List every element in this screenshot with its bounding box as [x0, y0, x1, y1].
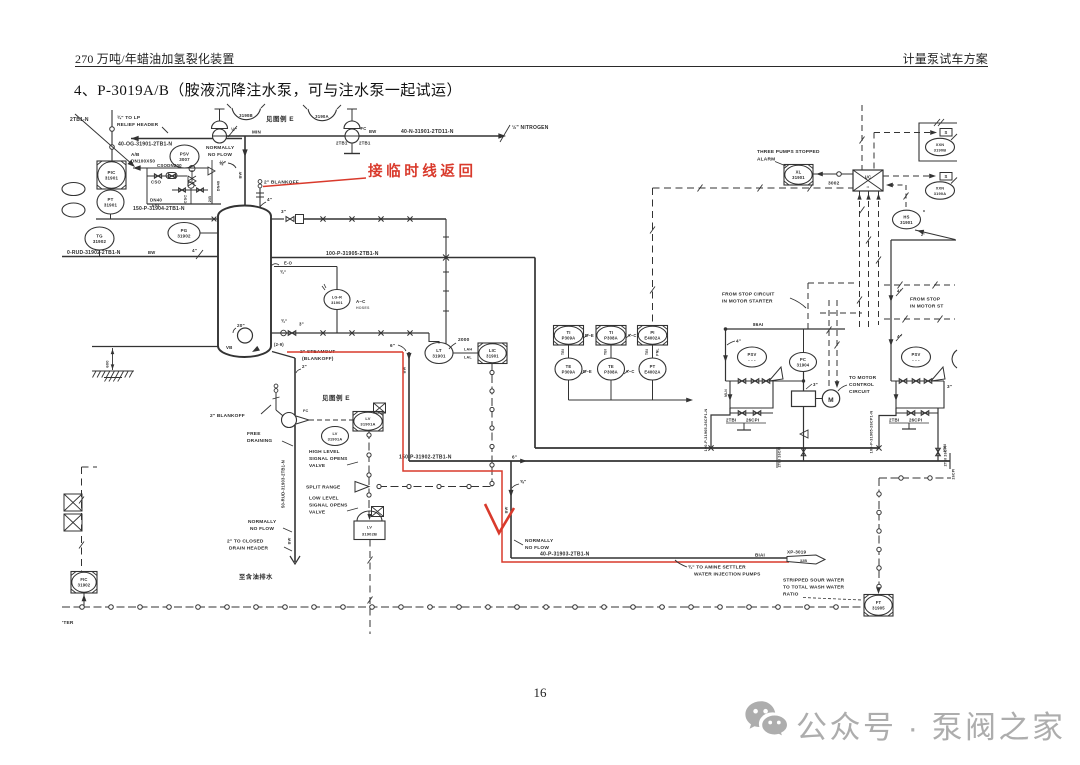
svg-text:XL: XL [796, 170, 802, 175]
svg-text:40-P-31903-2TB1-N: 40-P-31903-2TB1-N [540, 552, 590, 558]
svg-text:P308A: P308A [604, 336, 618, 341]
svg-text:6": 6" [512, 455, 517, 460]
svg-text:31901: 31901 [331, 300, 343, 305]
svg-text:600: 600 [105, 360, 110, 368]
pipe pump A suction drop [725, 329, 727, 381]
switch box S lower [940, 173, 952, 181]
positioner box LV31902B [372, 507, 384, 517]
svg-text:P309A: P309A [562, 370, 576, 375]
svg-text:31901A: 31901A [360, 422, 375, 427]
controller PIC 31901 [97, 161, 126, 189]
gauge TG 31902 [85, 227, 114, 250]
transmitter LT 31901 [425, 343, 453, 364]
svg-text:31902: 31902 [78, 583, 91, 588]
svg-text:31902: 31902 [93, 239, 107, 244]
valve manifold CSO row [154, 174, 161, 178]
pipe pump A discharge [803, 407, 805, 462]
svg-text:NO FLOW: NO FLOW [525, 545, 549, 551]
valve LV 31901A square [353, 412, 383, 432]
pipe riser to discharge header [408, 352, 410, 461]
wire TI drop [610, 345, 612, 358]
svg-text:⅝": ⅝" [520, 479, 526, 484]
svg-text:TE: TE [566, 364, 572, 369]
valve symbol upper left edge [64, 494, 82, 511]
svg-text:见图例 E: 见图例 E [322, 393, 350, 402]
svg-text:IN MOTOR STARTER: IN MOTOR STARTER [722, 299, 773, 305]
svg-text:PI: PI [650, 330, 654, 335]
pump B recirculation box [896, 381, 944, 408]
svg-text:THREE PUMPS STOPPED: THREE PUMPS STOPPED [757, 149, 820, 155]
svg-text:LAL: LAL [464, 356, 472, 360]
relief regulator left [219, 109, 221, 121]
svg-text:31902: 31902 [177, 234, 191, 239]
svg-text:UC: UC [865, 175, 871, 180]
pipe 40-P-31903 line [511, 557, 787, 559]
svg-text:50-RUD-31903-2TB1-N: 50-RUD-31903-2TB1-N [281, 460, 286, 508]
svg-text:2TB1: 2TB1 [336, 141, 348, 146]
wire manifold right drop [211, 171, 213, 204]
svg-text:CONTROL: CONTROL [849, 382, 874, 388]
spec tee pump B [908, 423, 910, 429]
valve row CSC [179, 188, 186, 192]
svg-text:PNL: PNL [656, 348, 660, 355]
svg-text:2TBI: 2TBI [943, 444, 947, 453]
pipe steamout stub [272, 352, 295, 359]
svg-text:E-O: E-O [284, 261, 293, 266]
svg-text:MLN: MLN [724, 389, 728, 397]
pipe relief header run [227, 135, 345, 137]
spec tee pump A [743, 423, 745, 430]
wire PC stem [803, 329, 805, 353]
svg-text:40-N-31901-2TD11-N: 40-N-31901-2TD11-N [401, 129, 454, 135]
pipe pump A suction from header [711, 408, 730, 448]
svg-text:6": 6" [390, 343, 395, 348]
wire TG stem [99, 250, 101, 257]
blankoff stub [275, 393, 277, 410]
svg-text:31902B: 31902B [362, 532, 377, 537]
pipe discharge header 150-P-31902 [409, 460, 950, 462]
wire pump run signals to UC [859, 191, 861, 330]
wire dashed above UC right [873, 133, 875, 171]
svg-text:HS: HS [903, 215, 909, 220]
svg-text:¾" TO AMINE SETTLER: ¾" TO AMINE SETTLER [688, 564, 746, 571]
controller PC 31904 [790, 353, 817, 372]
svg-text:31901A: 31901A [328, 437, 343, 442]
valve row pump A [726, 380, 803, 382]
pump A body [792, 391, 816, 407]
wire LV signal chain [368, 431, 370, 515]
label half inch min [228, 126, 237, 137]
red reroute path [403, 352, 789, 562]
svg-text:4": 4" [192, 248, 197, 253]
wire UC to S lower [883, 175, 933, 177]
wire PG to vessel [200, 232, 218, 234]
svg-text:3190B: 3190B [934, 148, 946, 153]
svg-text:TI: TI [609, 330, 613, 335]
relief PSV pump A [738, 347, 767, 367]
svg-text:3190B: 3190B [239, 113, 253, 118]
svg-text:150-P-31904-2TB1-N: 150-P-31904-2TB1-N [133, 206, 185, 212]
selector HS 31901 [893, 210, 921, 229]
wire PT stem [652, 380, 654, 400]
pipe drop 40-P [510, 461, 512, 558]
svg-text:2TBI: 2TBI [889, 418, 899, 423]
svg-text:31905: 31905 [872, 606, 885, 611]
svg-text:¾": ¾" [281, 319, 287, 324]
pipe 100-P-31905 line [271, 257, 535, 259]
indicator PI E4002A [638, 326, 668, 346]
svg-text:NO FLOW: NO FLOW [250, 526, 274, 532]
wire LT to LIC [453, 352, 478, 354]
svg-text:LV: LV [365, 416, 370, 421]
svg-text:TG: TG [96, 234, 103, 239]
svg-text:E4002A: E4002A [644, 336, 660, 341]
switch box S upper [940, 129, 952, 137]
svg-text:¾": ¾" [280, 270, 286, 275]
red temp line [263, 178, 366, 187]
wire PT to line [110, 214, 112, 219]
vessel nozzle 3in [271, 218, 284, 220]
gauge PG 31902 [168, 223, 200, 244]
pipe suction header [534, 258, 536, 449]
wire FIC from link line [83, 593, 85, 607]
svg-text:TBI: TBI [561, 349, 565, 355]
ground hatch [92, 370, 134, 372]
relief valve PSV 3007 [170, 145, 199, 168]
element TE P309A [555, 358, 582, 380]
wire PIC outlet [133, 165, 141, 170]
svg-text:31901: 31901 [104, 203, 118, 208]
svg-text:PSV: PSV [912, 352, 921, 357]
svg-text:FIC: FIC [80, 577, 87, 582]
wire standpipe to LT [429, 333, 439, 344]
pipe bottom drain [294, 358, 296, 545]
svg-text:FROM STOP CIRCUIT: FROM STOP CIRCUIT [722, 292, 775, 298]
svg-text:至含油排水: 至含油排水 [239, 573, 273, 581]
dash break slashes [698, 185, 703, 192]
svg-text:FC: FC [361, 126, 367, 131]
svg-text:- - -: - - - [748, 358, 756, 363]
svg-text:接临时线返回: 接临时线返回 [368, 162, 477, 180]
svg-text:31901: 31901 [486, 354, 499, 359]
svg-text:20": 20" [237, 323, 245, 328]
svg-text:LIC: LIC [489, 348, 496, 353]
level glass LG 31901 [324, 290, 350, 310]
svg-text:31904: 31904 [797, 363, 810, 368]
valve pair pump A bottom [730, 412, 773, 414]
drain outlet arrow [290, 556, 300, 564]
svg-text:CIRCUIT: CIRCUIT [849, 389, 870, 395]
wire HS lower diagonal [915, 230, 955, 240]
label 2TBI rotated A [776, 447, 778, 468]
wire TI drop [568, 345, 570, 358]
svg-text:A~C: A~C [356, 299, 366, 304]
svg-text:2": 2" [302, 364, 307, 369]
wire TE stem [568, 380, 570, 400]
svg-text:¾" TO LP: ¾" TO LP [117, 114, 141, 121]
svg-text:BW: BW [288, 537, 292, 544]
svg-text:TI: TI [566, 330, 570, 335]
red steamout line [287, 351, 403, 353]
svg-text:HIGH LEVEL: HIGH LEVEL [309, 449, 340, 455]
psv arc 3190A [308, 109, 337, 121]
svg-text:26CPI: 26CPI [909, 418, 922, 423]
wire dashed above UC left [861, 105, 863, 170]
svg-text:CSC: CSC [184, 195, 188, 204]
indicator TI P309A [554, 326, 584, 346]
svg-text:S: S [945, 130, 948, 135]
wire diagonal signal [75, 114, 133, 165]
pilot LV 31901A [322, 427, 349, 446]
svg-text:4": 4" [736, 339, 741, 344]
vessel V-3190 shell [218, 206, 271, 358]
wire dashed right mesh [884, 284, 955, 286]
svg-text:SIGNAL OPENS: SIGNAL OPENS [309, 503, 348, 509]
pipe left inlet header [96, 218, 218, 220]
relief PSV pump B [902, 347, 931, 367]
svg-text:FT: FT [876, 600, 882, 605]
pipe nitrogen line [359, 135, 503, 137]
svg-text:PT: PT [107, 197, 113, 202]
svg-text:NORMALLY: NORMALLY [206, 145, 235, 151]
left cut ellipse lower [62, 203, 85, 217]
svg-text:*: * [923, 210, 925, 216]
wire UC to XL [813, 173, 853, 175]
wire split range link [379, 486, 492, 488]
svg-text:2TBI: 2TBI [726, 418, 736, 423]
svg-text:LG-R: LG-R [332, 295, 342, 300]
svg-text:NO FLOW: NO FLOW [208, 152, 232, 158]
svg-text:½": ½" [220, 159, 226, 165]
svg-text:DRAIN HEADER: DRAIN HEADER [229, 546, 269, 552]
vessel top nozzle 2 [259, 188, 261, 207]
svg-text:3": 3" [813, 382, 818, 387]
wire equalizing leg [445, 219, 447, 344]
pump A recirculation box [730, 381, 773, 408]
svg-text:STRIPPED SOUR WATER: STRIPPED SOUR WATER [783, 578, 845, 584]
wire PI drop [652, 345, 654, 358]
element PT E4002A [639, 358, 666, 380]
svg-text:SIGNAL OPENS: SIGNAL OPENS [309, 456, 348, 462]
svg-text:PSV: PSV [748, 352, 757, 357]
valve right funnel [208, 167, 215, 175]
svg-text:3190A: 3190A [315, 114, 329, 119]
pipe vessel relief riser [244, 136, 246, 206]
wire dashed drop to PI [652, 188, 654, 326]
svg-text:HOSES: HOSES [356, 306, 370, 310]
svg-text:DN100X50: DN100X50 [131, 159, 155, 164]
svg-text:TBI: TBI [604, 349, 608, 355]
controller LIC 31901 [478, 343, 507, 364]
pipe standpipe line [271, 332, 429, 334]
svg-text:BW: BW [505, 506, 509, 513]
svg-text:BIAI: BIAI [755, 553, 765, 558]
bracket around XXN B [919, 123, 957, 161]
pipe 86AI header [726, 328, 846, 330]
svg-text:E4002A: E4002A [644, 370, 660, 375]
svg-text:MIN: MIN [252, 130, 262, 135]
wire TE collector [569, 399, 691, 401]
indicator TI P308A [596, 326, 626, 346]
svg-text:3": 3" [281, 209, 286, 214]
svg-text:ALARM: ALARM [757, 157, 775, 163]
svg-text:3190A: 3190A [934, 191, 946, 196]
svg-text:31901: 31901 [432, 354, 446, 359]
svg-text:CSO: CSO [151, 180, 161, 185]
cut mark pump C psv [952, 350, 957, 368]
svg-text:P308A: P308A [604, 370, 618, 375]
svg-text:FROM STOP: FROM STOP [910, 297, 941, 303]
wire FT signal chain [878, 478, 880, 590]
svg-text:(2-9): (2-9) [274, 342, 284, 347]
svg-text:0-RUD-31902-2TB1-N: 0-RUD-31902-2TB1-N [67, 250, 121, 256]
svg-text:TO TOTAL WASH WATER: TO TOTAL WASH WATER [783, 585, 845, 591]
svg-text:3": 3" [299, 322, 304, 327]
motor M pump A [816, 398, 823, 400]
svg-text:4": 4" [897, 289, 902, 294]
valve pair pump B bottom [896, 412, 938, 414]
wire TE stem [610, 380, 612, 400]
svg-text:DRAINING: DRAINING [247, 438, 272, 444]
svg-text:VB: VB [226, 345, 233, 350]
wire level tap lower [336, 310, 338, 334]
alarm lamp XXN 3190A [926, 182, 955, 199]
svg-text:2": 2" [921, 233, 925, 237]
svg-text:P309A: P309A [562, 336, 576, 341]
svg-text:4": 4" [267, 197, 272, 202]
positioner box LV31901A [374, 403, 386, 413]
junction tick left header [212, 217, 217, 222]
svg-text:- - -: - - - [912, 358, 920, 363]
svg-text:PIC: PIC [108, 170, 117, 175]
svg-text:100-P-31905-26CP1-N: 100-P-31905-26CP1-N [870, 411, 874, 454]
valve row pump B [891, 380, 944, 382]
svg-text:LV: LV [332, 431, 337, 436]
wire dashed below LV31902B [369, 540, 371, 635]
svg-text:2TB1: 2TB1 [359, 141, 371, 146]
svg-text:S: S [945, 174, 948, 179]
red arrow V [485, 504, 514, 533]
logic UC 3002 [853, 170, 883, 191]
svg-text:'TER: 'TER [62, 620, 74, 626]
svg-text:IN MOTOR ST: IN MOTOR ST [910, 304, 944, 310]
wire level tap upper [271, 264, 279, 266]
svg-text:PG: PG [181, 228, 188, 233]
regulator FC [351, 109, 353, 121]
svg-text:XXN: XXN [936, 142, 945, 147]
svg-text:PSV: PSV [180, 152, 189, 157]
svg-text:3007: 3007 [179, 157, 190, 162]
svg-text:2" TO CLOSED: 2" TO CLOSED [227, 539, 264, 545]
svg-text:2/B: 2/B [208, 196, 212, 203]
transmitter PT 31901 [97, 190, 124, 214]
svg-text:CSODN200: CSODN200 [157, 163, 182, 168]
svg-text:TO MOTOR: TO MOTOR [849, 375, 877, 381]
pipe top product line [304, 218, 447, 220]
valve symbol lower left edge [64, 514, 82, 531]
valve w/ actuator mid [188, 176, 196, 186]
svg-text:TBI: TBI [645, 349, 649, 355]
svg-text:DN40: DN40 [150, 198, 162, 203]
svg-text:DN40: DN40 [217, 181, 221, 192]
pipe pump B suction from header [879, 408, 896, 448]
svg-text:LAH: LAH [464, 348, 472, 352]
svg-text:PC: PC [800, 357, 806, 362]
svg-text:100-P-31905-2TB1-N: 100-P-31905-2TB1-N [326, 251, 379, 257]
svg-text:31901: 31901 [105, 175, 119, 180]
wire bottom link line [62, 606, 82, 608]
dim 600 [112, 348, 114, 370]
wire manifold left drop [146, 168, 148, 204]
svg-text:100-P-31905-26CP1-N: 100-P-31905-26CP1-N [704, 409, 708, 452]
watermark wechat icon [744, 700, 796, 744]
svg-text:RELIEF HEADER: RELIEF HEADER [117, 122, 159, 128]
svg-text:3002: 3002 [828, 181, 840, 187]
svg-text:见图例 E: 见图例 E [266, 114, 294, 123]
transmitter FT 31905 [864, 595, 893, 617]
svg-text:••: •• [867, 185, 870, 189]
pipe pump B discharge [937, 408, 939, 461]
svg-text:40-OG-31901-2TB1-N: 40-OG-31901-2TB1-N [118, 142, 172, 148]
wire dashed stop mesh [807, 283, 809, 330]
svg-text:2" BLANKOFF: 2" BLANKOFF [210, 413, 245, 419]
wire LIC output chain [491, 364, 493, 487]
controller FIC 31902 [71, 572, 97, 594]
pipe 150-P-31904-2TB1-N [147, 203, 221, 205]
left cut ellipse upper [62, 183, 85, 196]
svg-text:BW: BW [238, 171, 243, 178]
svg-text:2TBI 26CPI: 2TBI 26CPI [778, 447, 782, 468]
pipe RUD-31902 line [62, 256, 218, 258]
wire HS to UC [886, 183, 893, 188]
svg-text:BW: BW [369, 129, 376, 134]
svg-text:TE: TE [608, 364, 614, 369]
svg-text:VALVE: VALVE [309, 463, 326, 469]
valve LV 31902B square [354, 521, 385, 540]
svg-text:RATIO: RATIO [783, 592, 799, 598]
svg-text:NORMALLY: NORMALLY [248, 519, 277, 525]
control valve LV-A body [282, 413, 297, 428]
svg-text:M: M [828, 397, 834, 404]
svg-text:LV: LV [367, 525, 372, 530]
pipe 40-OG-31901-2TB1-N [131, 136, 139, 141]
psv arc 3190B [232, 108, 261, 120]
svg-text:LT: LT [436, 348, 442, 353]
svg-text:FC: FC [303, 409, 309, 413]
blank spec break below FC [351, 143, 353, 153]
label half inch nitrogen [500, 125, 510, 142]
wire dashed UC to left [653, 187, 854, 189]
svg-text:SPLIT RANGE: SPLIT RANGE [306, 485, 341, 491]
svg-text:½": ½" [231, 126, 237, 132]
svg-text:A/B: A/B [131, 152, 140, 157]
svg-text:WATER INJECTION PUMPS: WATER INJECTION PUMPS [694, 572, 761, 578]
svg-text:32B: 32B [800, 559, 807, 563]
svg-text:FREE: FREE [247, 431, 261, 437]
svg-text:LOW LEVEL: LOW LEVEL [309, 496, 339, 502]
pipe pump B feed [890, 240, 892, 381]
svg-text:150-P-31902-2TB1-N: 150-P-31902-2TB1-N [399, 455, 452, 461]
svg-text:2000: 2000 [458, 337, 470, 343]
wire dashed to FIC [81, 467, 83, 572]
svg-text:26CPI: 26CPI [952, 469, 956, 480]
svg-text:(BLANKOFF): (BLANKOFF) [302, 356, 334, 362]
svg-text:XXN: XXN [936, 186, 945, 191]
wire LV dashed signal [309, 419, 353, 421]
svg-text:VALVE: VALVE [309, 510, 326, 516]
svg-text:½" NITROGEN: ½" NITROGEN [512, 124, 549, 131]
svg-text:PT: PT [650, 364, 656, 369]
